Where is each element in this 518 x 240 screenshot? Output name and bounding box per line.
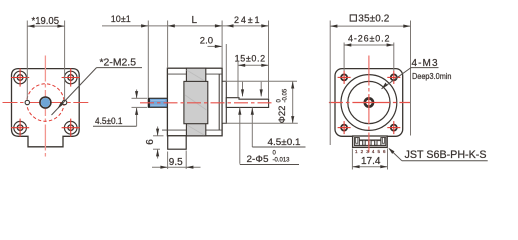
cap corner tangent line top-front xyxy=(167,73,186,75)
mounting hole bottom-right xyxy=(62,119,80,137)
svg-text:-0.013: -0.013 xyxy=(273,158,291,164)
connector pin numbers (red) xyxy=(355,149,386,154)
cap corner tangent line bottom-rear xyxy=(206,129,222,131)
dim 10±1 arrows (outside pointing in) xyxy=(141,24,148,27)
outer body circle xyxy=(341,75,397,131)
svg-text:24±1: 24±1 xyxy=(234,15,260,25)
svg-text:-0.05: -0.05 xyxy=(282,88,288,102)
svg-text:L: L xyxy=(192,15,198,26)
svg-text:JST S6B-PH-K-S: JST S6B-PH-K-S xyxy=(405,149,487,161)
svg-text:15±0.2: 15±0.2 xyxy=(235,53,266,63)
label 4-M3 leader xyxy=(382,68,412,89)
M3 hole bottom-left xyxy=(338,121,351,134)
connector middle pins xyxy=(363,140,366,145)
dim *19.05 dimension line xyxy=(27,25,64,27)
mounting hole top-right xyxy=(62,68,80,86)
ext line shaft tip xyxy=(147,21,149,99)
M3 hole bottom-right xyxy=(387,121,400,134)
ext line boss face xyxy=(225,44,227,81)
front shaft flat dim upper arrow xyxy=(136,90,138,99)
svg-text:9.5: 9.5 xyxy=(169,157,183,168)
rear cap boundary line xyxy=(218,74,220,130)
dim square35 ext lines xyxy=(329,21,331,146)
dim 15±0.2 dimension line + arrows xyxy=(238,64,269,66)
phi22 dimension line with arrows xyxy=(292,81,294,123)
dim 6 arrows xyxy=(157,127,159,136)
ext line rear shaft tip xyxy=(268,21,270,99)
dim square35 arrows xyxy=(330,25,337,28)
dim 24±1 arrows xyxy=(226,24,233,27)
mounting hole bottom-left xyxy=(11,119,29,137)
phi22 boss circle xyxy=(348,81,390,123)
2-phi5 underline xyxy=(240,164,299,166)
label *2-M2.5 arrowhead xyxy=(58,102,64,109)
svg-text:2-Ф5: 2-Ф5 xyxy=(247,154,269,165)
dim 2.0 leader with arrow xyxy=(208,45,222,47)
ext lines for front shaft flat dim xyxy=(132,97,148,99)
dim *19.05 arrow left xyxy=(27,25,34,28)
label JST leader xyxy=(390,149,402,161)
connector cavity floor xyxy=(354,145,386,146)
dim *19.05 extension line left xyxy=(26,21,28,100)
label JST arrowhead xyxy=(388,148,394,154)
label *2-M2.5 underline xyxy=(97,67,143,69)
rear shaft flat arrows upper pair xyxy=(242,82,244,97)
top dimension line (10±1 / L / 24±1) xyxy=(102,25,269,27)
centerline horizontal rear view xyxy=(329,102,411,104)
dim 4-26 dimension line xyxy=(344,44,394,46)
svg-text:Ф22: Ф22 xyxy=(277,106,288,124)
dim 4.5±0.1 (front shaft flat) underline xyxy=(93,125,137,127)
dim 17.4 ext lines xyxy=(351,149,353,170)
4.5±0.1 rear underline xyxy=(252,146,305,148)
connector left end hook xyxy=(354,138,359,146)
hatch lines on stator xyxy=(187,70,205,81)
dim *19.05 arrow right xyxy=(57,25,64,28)
svg-text:4.5±0.1: 4.5±0.1 xyxy=(268,137,301,147)
centerline horizontal front view xyxy=(3,102,90,104)
cap corner tangent line top-rear xyxy=(206,73,222,75)
stator middle block (wider) xyxy=(184,81,208,123)
connector outline xyxy=(353,136,388,147)
dim 6 text (rotated) xyxy=(145,139,156,145)
dim 4-26 arrows xyxy=(344,43,351,46)
M2.5 hole left xyxy=(25,100,29,104)
svg-text:35±0.2: 35±0.2 xyxy=(358,13,389,24)
bottom connector protrusion (side view) xyxy=(168,136,187,149)
svg-text:*19.05: *19.05 xyxy=(32,15,60,27)
dim 15±0.2 left extension line xyxy=(237,62,239,98)
label 4-M3 arrowhead xyxy=(382,83,388,89)
rear shaft xyxy=(226,98,268,108)
connector cavity top bar xyxy=(359,139,381,141)
stator stack band xyxy=(186,68,205,136)
bolt circle (red dashed) xyxy=(27,84,64,121)
front plate outline xyxy=(12,69,80,147)
dim 17.4 dimension line xyxy=(352,166,387,168)
dim 9.5 dimension line xyxy=(152,166,201,168)
svg-text:Deep3.0min: Deep3.0min xyxy=(412,71,452,81)
centerline horizontal side view xyxy=(140,102,274,104)
dim 4.5±0.1 (front) vertical line lower with up arrow xyxy=(136,108,138,126)
M3 hole top-left xyxy=(338,71,351,84)
svg-text:17.4: 17.4 xyxy=(361,156,381,167)
dim 6 ext stubs xyxy=(153,135,164,137)
M3 hole top-right xyxy=(387,71,400,84)
svg-text:6: 6 xyxy=(145,139,156,145)
center shaft (blue) xyxy=(41,98,50,107)
front shaft (blue) xyxy=(148,98,167,107)
2-phi5 vertical line with up arrow xyxy=(239,108,241,164)
center shaft ring xyxy=(365,98,373,106)
dim 9.5 ext lines xyxy=(167,152,169,170)
dim 9.5 arrows xyxy=(160,166,167,169)
M2.5 hole right xyxy=(62,100,66,104)
centerline vertical front view xyxy=(44,56,46,158)
ext line front face xyxy=(167,21,169,69)
centerline vertical rear view xyxy=(368,56,370,153)
label *2-M2.5 leader xyxy=(52,68,97,115)
motor body outline xyxy=(167,68,222,136)
phi22 extension lines xyxy=(223,80,297,82)
rear plate outline xyxy=(335,69,403,137)
label JST underline xyxy=(402,160,488,162)
svg-text:2.0: 2.0 xyxy=(200,36,213,47)
mounting hole top-left xyxy=(11,68,29,86)
phi22 rotated text xyxy=(276,88,288,123)
ext line rear face xyxy=(221,21,223,69)
cap corner tangent line bottom-front xyxy=(162,129,187,131)
svg-text:4.5±0.1: 4.5±0.1 xyxy=(95,116,123,126)
dim square35 text xyxy=(350,15,356,21)
dim 17.4 arrows xyxy=(352,165,359,168)
center shaft boss ring xyxy=(40,97,51,108)
4.5±0.1 rear vertical line with up arrow xyxy=(251,108,253,147)
svg-text:4-26±0.2: 4-26±0.2 xyxy=(348,34,390,44)
rear boss xyxy=(222,81,226,123)
connector right end hook xyxy=(381,138,386,146)
dim square35 dimension line xyxy=(330,25,410,27)
center red cross xyxy=(362,102,377,104)
dim *19.05 extension line right xyxy=(64,21,66,100)
svg-text:*2-M2.5: *2-M2.5 xyxy=(100,56,137,68)
dim 4-26 ext lines xyxy=(343,43,345,72)
dim L right arrow xyxy=(215,24,222,27)
svg-text:10±1: 10±1 xyxy=(111,14,131,24)
label 4-M3 underline xyxy=(411,67,439,69)
